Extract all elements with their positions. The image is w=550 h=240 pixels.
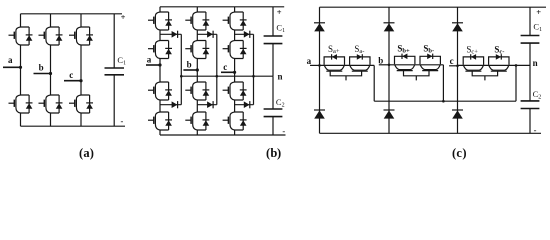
IGBT S3a (b) [148, 82, 172, 100]
IGBT S4c (b) [223, 112, 247, 130]
wire: capacitor mid link (c) [529, 43, 531, 101]
wire: phase b stub (c) [379, 64, 389, 66]
diode Db- bottom (c) [384, 110, 395, 119]
wire: phase b stub (b) [183, 69, 197, 71]
wire: clamp rail leg1 [180, 34, 182, 104]
wire: capacitor C2 to bottom rail (b) [272, 117, 274, 135]
wire: clamp wire lower leg1 [160, 104, 181, 106]
wire: clamp wire upper leg3 [235, 33, 254, 35]
svg-text:+: + [536, 7, 541, 17]
wire: phase b stub [34, 73, 51, 75]
wire: neutral bus riser (c) [515, 65, 517, 101]
wire: leg A collector [20, 14, 22, 27]
IGBT S3b (b) [185, 82, 209, 100]
node: phase c junction (b) [233, 71, 236, 74]
IGBT Q2 (a, phase c bottom) [69, 95, 93, 113]
node: phase b junction [49, 72, 52, 75]
switch Sa+ (c) [324, 54, 344, 71]
diode D1a clamp upper (b) [172, 31, 178, 38]
wire: gate tie U pair c [472, 71, 497, 80]
svg-text:): ) [90, 146, 94, 160]
IGBT S4b (b) [185, 112, 209, 130]
wire: leg1 S1-S2 [159, 30, 161, 41]
node: phase b junction (b) [196, 68, 199, 71]
switch Sb+ (c) [395, 54, 415, 71]
wire: leg3 S1-S2 [234, 30, 236, 41]
wire: panel b bottom DC rail [160, 134, 286, 136]
wire: phase a stub [3, 66, 21, 68]
node: phase c junction (c) [456, 65, 459, 68]
switch Sa- (c) [350, 54, 370, 71]
wire: phase c stub (b) [221, 71, 235, 73]
diode Da+ top (c) [314, 23, 325, 32]
svg-text:-: - [282, 126, 285, 136]
IGBT S1b (b) [185, 12, 209, 30]
svg-text:-: - [534, 125, 537, 135]
svg-text:Sa-: Sa- [354, 44, 364, 55]
wire: panel a top DC rail [21, 13, 123, 15]
svg-text:C2: C2 [276, 97, 285, 109]
wire: gate tie U pair b [404, 71, 430, 81]
IGBT Q3 (a, phase b top) [39, 27, 63, 45]
svg-text:Sb-: Sb- [423, 43, 434, 54]
node: clamp rail 2 on n bus [216, 75, 219, 78]
wire: panel a bottom DC rail [21, 125, 126, 127]
node: phase a junction (c) [318, 64, 321, 67]
svg-text:Sc+: Sc+ [466, 44, 478, 55]
svg-text:Sc-: Sc- [494, 44, 504, 55]
diode D2b clamp lower (b) [207, 101, 213, 108]
wire: leg3 S3-S4 [234, 100, 236, 112]
IGBT Q4 (a, phase a bottom) [9, 95, 33, 113]
IGBT Q5 (a, phase c top) [69, 27, 93, 45]
wire: panel c bottom DC rail [320, 132, 542, 134]
node: phase b junction (c) [388, 64, 391, 67]
wire: clamp wire upper leg2 [197, 33, 217, 35]
svg-text:+: + [277, 7, 282, 17]
IGBT S2a (b) [148, 41, 172, 59]
diode D1b clamp upper (b) [207, 31, 213, 38]
wire: leg C collector [80, 14, 82, 27]
wire: capacitor branch bottom (a) [113, 75, 115, 126]
wire: phase a stub (c) [310, 64, 320, 66]
svg-text:C1: C1 [533, 21, 542, 33]
wire: leg C emitter to rail [80, 113, 82, 126]
wire: leg B emitter to rail [50, 113, 52, 126]
wire: leg1 S3-S4 [159, 100, 161, 112]
wire: pair a drop to neutral bus [373, 65, 375, 101]
wire: capacitor C2 to bottom rail (c) [529, 109, 531, 134]
wire: pair b main wire [389, 64, 443, 66]
wire: leg b vertical [388, 7, 390, 133]
wire: gate tie U pair a [330, 71, 361, 80]
IGBT S4a (b) [148, 112, 172, 130]
IGBT S2b (b) [185, 41, 209, 59]
IGBT Q1 (a, phase a top) [9, 27, 33, 45]
svg-text:b: b [39, 62, 44, 72]
wire: capacitor C1 to n bus (b) [272, 44, 274, 77]
wire: leg C middle [80, 45, 82, 95]
wire: leg3 S2 to phase c [234, 59, 236, 83]
wire: leg1 S2 to phase a [159, 59, 161, 83]
wire: leg2 S1-S2 [196, 30, 198, 41]
svg-text:): ) [462, 146, 466, 160]
switch Sc+ (c) [463, 54, 483, 71]
wire: n bus to capacitor C2 (b) [272, 76, 274, 109]
wire: pair b drop to neutral bus [442, 65, 444, 101]
wire: panel b top DC rail [160, 6, 284, 8]
svg-text:n: n [278, 72, 283, 82]
wire: phase c stub (c) [449, 65, 457, 67]
svg-text:a: a [307, 56, 312, 66]
diode Dc- bottom (c) [452, 110, 463, 119]
wire: leg2 collector S1 [196, 7, 198, 12]
wire: leg B collector [50, 14, 52, 27]
wire: leg2 S2 to phase b [196, 59, 198, 83]
svg-text:C1: C1 [276, 23, 285, 34]
IGBT S1c (b) [223, 12, 247, 30]
svg-text:b: b [378, 56, 383, 66]
wire: clamp rail leg3 [253, 34, 255, 104]
IGBT S1a (b) [148, 12, 172, 30]
IGBT Q6 (a, phase b bottom) [39, 95, 63, 113]
wire: neutral return bus (c) [374, 100, 516, 102]
wire: leg3 emitter to rail [234, 130, 236, 135]
svg-text:c: c [223, 62, 227, 72]
wire: clamp wire lower leg3 [235, 104, 254, 106]
wire: leg2 S3-S4 [196, 100, 198, 112]
wire: capacitor branch top (c) [529, 7, 531, 35]
wire: leg2 emitter to rail [196, 130, 198, 135]
svg-text:a: a [8, 55, 13, 65]
wire: leg c vertical [457, 7, 459, 133]
wire: neutral bus n (panel b) [181, 75, 273, 77]
svg-text:): ) [277, 146, 281, 160]
diode Dc+ top (c) [452, 23, 463, 32]
diode Da- bottom (c) [314, 110, 325, 119]
wire: leg1 collector S1 [159, 7, 161, 12]
wire: pair c main wire and n link [458, 64, 531, 66]
diode D2c clamp lower (b) [244, 101, 250, 108]
switch Sb- (c) [420, 54, 440, 71]
svg-text:C1: C1 [117, 55, 126, 66]
wire: capacitor branch top (a) [113, 14, 115, 68]
wire: leg1 emitter to rail [159, 130, 161, 135]
IGBT S2c (b) [223, 41, 247, 59]
wire: capacitor branch top (b) [272, 7, 274, 36]
svg-text:C2: C2 [533, 89, 542, 101]
diode D1c clamp upper (b) [244, 31, 250, 38]
wire: leg A middle [20, 45, 22, 95]
wire: leg3 collector S1 [234, 7, 236, 12]
svg-text:c: c [69, 70, 73, 80]
diode Db+ top (c) [384, 23, 395, 32]
wire: pair a main wire [320, 64, 375, 66]
switch Sc- (c) [489, 54, 509, 71]
svg-text:a: a [147, 54, 152, 64]
diode D2a clamp lower (b) [172, 101, 178, 108]
wire: leg B middle [50, 45, 52, 95]
wire: leg a vertical [319, 7, 321, 133]
capacitor C2 (panel c) [521, 101, 540, 109]
capacitor C2 (panel b) [264, 109, 283, 117]
capacitor C1 (panel b) [264, 36, 283, 44]
node: phase a junction (b) [158, 63, 161, 66]
IGBT S3c (b) [223, 82, 247, 100]
wire: leg A emitter to rail [20, 113, 22, 126]
svg-text:c: c [450, 56, 454, 66]
wire: clamp rail leg2 [216, 34, 218, 104]
svg-text:+: + [121, 12, 126, 22]
node: clamp rail 1 on n bus [180, 75, 183, 78]
svg-text:n: n [533, 58, 538, 68]
capacitor C1 (panel a) [105, 68, 125, 75]
node: riser joins n wire [515, 64, 518, 67]
node: phase c junction [79, 79, 82, 82]
capacitor C1 (panel c) [521, 36, 540, 44]
node: phase a junction [19, 66, 22, 69]
svg-text:-: - [121, 116, 124, 126]
wire: panel c top DC rail [320, 6, 547, 8]
wire: clamp wire upper leg1 [160, 33, 181, 35]
node: pair b drop on bus [442, 100, 445, 103]
wire: clamp wire lower leg2 [197, 104, 217, 106]
wire: phase a stub (b) [146, 64, 160, 66]
wire: phase c stub [64, 80, 81, 82]
svg-text:b: b [187, 60, 192, 70]
node: clamp rail 3 on n bus [252, 75, 255, 78]
svg-text:Sa+: Sa+ [328, 44, 340, 55]
svg-text:Sb+: Sb+ [397, 43, 410, 54]
